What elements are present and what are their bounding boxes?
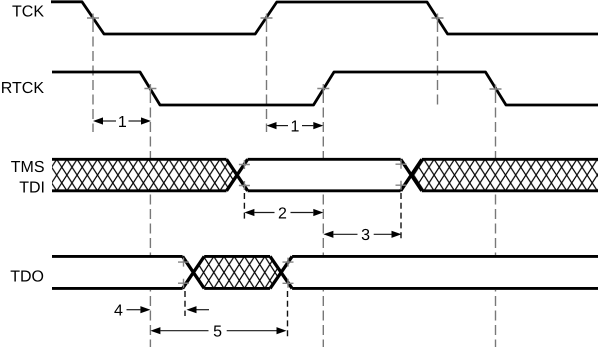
cross mark TCK rise <box>261 14 273 23</box>
TDO band top edge <box>52 255 598 258</box>
dimension 2 (TMS/TDI setup to RTCK rise) <box>244 205 323 222</box>
cross mark TCK fall 1 <box>87 14 99 23</box>
dimension 1 (TCK fall to RTCK fall) <box>93 114 151 131</box>
TMS/TDI right hatched region <box>411 159 598 191</box>
cross mark RTCK rise <box>317 84 329 93</box>
dimension 3 (RTCK rise to TMS/TDI hold) <box>323 227 401 244</box>
cross marks TDO valid point <box>283 258 294 288</box>
cross marks TMS/TDI invalid point <box>396 160 407 190</box>
TMS/TDI crossover right <box>401 159 422 191</box>
dashed line TCK fall 2 <box>437 22 439 106</box>
TMS/TDI band white underlay <box>52 158 598 193</box>
black dashed measurement ref line TDO invalid <box>184 291 186 316</box>
TMS/TDI band bottom edge <box>52 189 598 192</box>
svg-text:2: 2 <box>278 205 287 222</box>
black dashed measurement ref line TMS/TDI invalid <box>400 193 402 241</box>
TCK waveform <box>51 2 598 34</box>
svg-text:TDO: TDO <box>10 268 44 285</box>
svg-text:4: 4 <box>114 303 123 320</box>
cross mark RTCK fall 2 <box>490 85 502 94</box>
svg-text:1: 1 <box>291 118 300 135</box>
black dashed measurement ref line TMS/TDI valid <box>243 193 245 219</box>
dashed line TCK rise <box>266 22 268 132</box>
dashed line RTCK fall 2 <box>495 93 497 347</box>
dimension 4 (RTCK fall to TDO invalid, arrows outside) <box>114 303 209 320</box>
svg-text:TDI: TDI <box>19 180 45 197</box>
TDO band white underlay <box>52 255 598 290</box>
dashed line TCK fall 1 <box>92 22 94 132</box>
TMS/TDI band top edge <box>52 158 598 161</box>
TDO crossover left <box>183 256 205 288</box>
svg-text:3: 3 <box>361 227 370 244</box>
cross marks TMS/TDI valid point <box>239 160 250 190</box>
black dashed measurement ref line TDO valid <box>287 291 289 337</box>
svg-text:TMS: TMS <box>11 159 45 176</box>
svg-text:5: 5 <box>213 324 222 341</box>
dimension 1 (TCK rise to RTCK rise) <box>267 118 324 135</box>
TMS/TDI crossover left <box>227 159 248 191</box>
TDO hatched region <box>193 256 281 288</box>
dashed line RTCK fall 1 <box>149 93 151 347</box>
RTCK waveform <box>52 72 598 105</box>
dimension 5 (RTCK fall to TDO valid) <box>150 324 286 341</box>
svg-text:TCK: TCK <box>12 4 44 21</box>
TDO crossover right <box>270 256 292 288</box>
cross mark TCK fall 2 <box>432 14 444 23</box>
cross marks TDO invalid point <box>178 258 189 288</box>
TMS/TDI left hatched region <box>52 159 237 191</box>
svg-text:RTCK: RTCK <box>1 80 45 97</box>
cross mark RTCK fall 1 <box>144 84 156 93</box>
svg-text:1: 1 <box>118 114 127 131</box>
TDO band bottom edge <box>52 287 598 290</box>
dashed line RTCK rise <box>322 93 324 347</box>
